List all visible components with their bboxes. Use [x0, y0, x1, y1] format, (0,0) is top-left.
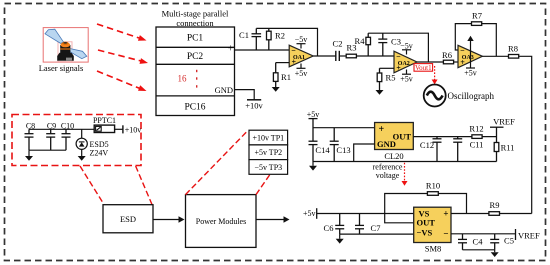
ground below ESD5 — [78, 156, 86, 161]
svg-text:−VS: −VS — [417, 228, 433, 238]
wire CL20 GND pin — [354, 144, 375, 162]
svg-text:Laser signals: Laser signals — [39, 63, 84, 73]
svg-text:R6: R6 — [442, 50, 452, 60]
red projector line to ESD right — [136, 166, 152, 205]
red projector line to TP box top — [186, 131, 248, 195]
svg-text:R4: R4 — [355, 36, 366, 46]
svg-text:C8: C8 — [26, 122, 35, 131]
node +10v terminal — [122, 125, 124, 133]
svg-text:ESD: ESD — [120, 214, 136, 224]
capacitor C4 — [458, 234, 467, 250]
svg-text:OA1: OA1 — [293, 55, 305, 61]
resistor R3 — [346, 54, 356, 58]
red dashed arrow 3 — [97, 71, 147, 91]
svg-text:C14: C14 — [315, 145, 330, 155]
wire R9 to right rail — [500, 213, 532, 215]
resistor R6 — [443, 60, 453, 64]
svg-text:+10v: +10v — [245, 101, 263, 111]
OA3 +5v supply — [466, 67, 475, 69]
svg-text:GND: GND — [377, 139, 396, 149]
OA3 ground arrow up — [467, 36, 473, 68]
wire OA2 feedback — [368, 33, 428, 62]
svg-text:+: + — [228, 44, 234, 55]
svg-text:C4: C4 — [473, 236, 484, 246]
wire ESD input rail — [29, 128, 94, 130]
op-amp OA3 — [458, 45, 482, 67]
svg-text:Z24V: Z24V — [90, 148, 109, 157]
svg-text:Power Modules: Power Modules — [196, 217, 246, 226]
capacitor C8 — [25, 129, 34, 150]
svg-text:PC1: PC1 — [187, 34, 204, 44]
ground below R1 — [272, 87, 280, 92]
wire PPTC1 to +10v — [115, 128, 123, 130]
svg-text:R9: R9 — [490, 200, 500, 210]
svg-text:−5v: −5v — [295, 35, 308, 44]
wire PC2 to OA1 — [235, 49, 290, 51]
fuse PPTC1 — [94, 125, 114, 132]
TVS diode ESD5 — [76, 129, 87, 156]
svg-text:SM8: SM8 — [425, 244, 442, 254]
svg-text:−5v TP3: −5v TP3 — [254, 163, 282, 172]
svg-text:GND: GND — [215, 85, 233, 95]
+5v supply (SM8 rail) — [317, 208, 414, 219]
svg-text:C1: C1 — [239, 30, 249, 40]
svg-text:+5v: +5v — [295, 69, 308, 78]
OA2 -5v supply — [402, 50, 411, 55]
wire R8 down right side to R9 — [519, 56, 532, 213]
wire SM8 minus pin to VREF — [451, 233, 516, 235]
wire R3 to OA2 — [356, 55, 394, 57]
svg-text:Vout1: Vout1 — [415, 64, 432, 72]
ground below R5 — [376, 90, 384, 95]
OA1 -5v supply — [297, 44, 306, 49]
arrow ESD to Power Modules — [153, 216, 185, 222]
ground below C5 — [491, 250, 499, 257]
svg-text:R8: R8 — [508, 44, 518, 54]
svg-text:Oscillograph: Oscillograph — [448, 91, 495, 101]
resistor R11 — [494, 143, 499, 162]
svg-text:R10: R10 — [426, 181, 440, 191]
svg-text:+: + — [379, 124, 385, 135]
wire GND to +10v — [235, 90, 255, 100]
svg-text:C5: C5 — [504, 235, 514, 245]
ground below C8 — [25, 150, 33, 161]
resistor R4 — [366, 33, 371, 56]
svg-text:R1: R1 — [281, 72, 291, 82]
capacitor C14 — [309, 141, 318, 161]
svg-text:−: − — [460, 46, 465, 55]
svg-text:C13: C13 — [336, 145, 350, 155]
svg-text:C6: C6 — [324, 223, 334, 233]
wire CL20 OUT — [413, 136, 496, 138]
red dashed arrow 2 — [98, 50, 148, 64]
ground arrow (CL20 rail) — [309, 162, 317, 171]
capacitor C3 — [378, 33, 387, 56]
svg-text:voltage: voltage — [376, 171, 400, 180]
test point box TP2 — [249, 145, 288, 160]
svg-text:CL20: CL20 — [384, 151, 403, 161]
+10v supply bar — [247, 99, 261, 101]
laser signals icon — [43, 28, 88, 63]
ESD detail red dashed box — [12, 115, 141, 166]
wire R6 to OA3 — [454, 61, 458, 63]
resistor R9 — [489, 212, 500, 216]
svg-text:+5v: +5v — [400, 75, 413, 84]
block Power Modules — [186, 195, 257, 248]
svg-text:C10: C10 — [61, 122, 74, 131]
wire OA1 output — [313, 55, 336, 57]
capacitor C12 — [433, 137, 442, 162]
svg-text:−: − — [291, 46, 296, 55]
svg-text:R7: R7 — [472, 11, 482, 21]
svg-text:C9: C9 — [47, 122, 56, 131]
svg-text:VREF: VREF — [493, 117, 515, 127]
svg-text:VREF: VREF — [518, 230, 540, 240]
node VREF (bottom) — [515, 229, 517, 240]
wire OA3 output — [482, 55, 508, 57]
test point box TP3 — [249, 160, 288, 175]
capacitor C7 — [355, 214, 364, 235]
svg-text:R12: R12 — [469, 124, 483, 134]
wire OA2 plus input — [380, 67, 395, 69]
red projector line to ESD left — [80, 166, 104, 205]
svg-text:OUT: OUT — [417, 218, 436, 228]
red dotted arrow (reference voltage) — [402, 163, 408, 186]
svg-text:OA2: OA2 — [398, 61, 410, 67]
svg-text:C12: C12 — [420, 140, 434, 150]
wire SM8 plus pin to R9 — [451, 213, 489, 215]
capacitor C5 — [490, 234, 499, 250]
wire R10 feedback loop — [385, 194, 467, 223]
svg-text:−5v: −5v — [400, 41, 413, 50]
svg-text:+: + — [443, 209, 448, 219]
svg-text:+5v TP2: +5v TP2 — [254, 148, 282, 157]
arrow Power Modules output — [256, 216, 290, 222]
wire OA2 output to R6 — [417, 61, 443, 63]
op-amp OA2 — [394, 51, 417, 73]
svg-text:C7: C7 — [371, 223, 381, 233]
resistor R1 — [273, 63, 278, 87]
svg-text:R2: R2 — [275, 31, 285, 41]
OA1 +5v supply — [297, 64, 306, 69]
svg-text:C2: C2 — [333, 39, 343, 49]
svg-text:PPTC1: PPTC1 — [93, 116, 116, 125]
svg-text:connection: connection — [176, 18, 214, 28]
oscillograph — [424, 85, 446, 107]
regulator SM8 — [414, 207, 451, 242]
wire OA1 feedback — [256, 28, 317, 56]
svg-text:C11: C11 — [470, 140, 484, 150]
capacitor C11 — [453, 137, 462, 162]
red dotted arrow to oscillograph — [432, 66, 438, 84]
wire C4/C5 bottoms — [463, 249, 495, 251]
capacitor C13 — [330, 128, 339, 162]
ground below C6 — [336, 234, 344, 244]
wire OA3 feedback left — [455, 24, 496, 57]
wire C2 to R3 — [339, 55, 346, 57]
resistor R5 — [377, 68, 382, 90]
capacitor C9 — [46, 129, 55, 150]
svg-text:+10v: +10v — [125, 125, 142, 134]
resistor R7 — [472, 22, 482, 26]
svg-text:+5v: +5v — [464, 69, 477, 78]
resistor R10 — [427, 192, 438, 196]
red projector line to TP box bottom — [256, 174, 270, 194]
svg-text:+5v: +5v — [303, 209, 316, 218]
svg-text:PC16: PC16 — [184, 103, 205, 113]
wire C6/C7 to -VS pin — [340, 233, 414, 235]
ground rail (CL20) — [313, 161, 497, 163]
+5v supply (CL20 rail) — [309, 119, 318, 142]
capacitor C2 — [336, 51, 340, 61]
wire C8-C10 bottoms — [29, 149, 66, 151]
svg-text:Multi-stage parallel: Multi-stage parallel — [162, 9, 229, 19]
wire OA1 plus input — [276, 62, 290, 64]
capacitor C6 — [335, 214, 344, 235]
regulator CL20 — [375, 123, 414, 150]
svg-text:+10v TP1: +10v TP1 — [252, 134, 284, 143]
multi-stage parallel connection block — [156, 27, 235, 116]
svg-text:−: − — [443, 229, 448, 239]
svg-text:−: − — [396, 52, 401, 61]
wire +5v to CL20 plus pin — [313, 127, 375, 129]
capacitor C10 — [62, 129, 71, 150]
svg-text:16: 16 — [178, 74, 188, 84]
capacitor C1 — [252, 28, 262, 50]
resistor R2 — [267, 28, 272, 50]
op-amp OA1 — [289, 45, 313, 67]
svg-text:OA3: OA3 — [462, 55, 474, 61]
red dashed arrow 1 — [97, 24, 147, 41]
node Vout1 — [414, 64, 433, 72]
svg-text:R5: R5 — [386, 73, 396, 83]
test point box TP1 — [249, 130, 288, 145]
OA2 +5v supply — [402, 70, 411, 75]
svg-text:R11: R11 — [501, 143, 515, 153]
block ESD — [103, 205, 153, 233]
node VREF (top) — [490, 127, 504, 142]
resistor R12 — [472, 135, 482, 139]
resistor R8 — [509, 55, 519, 59]
svg-text:PC2: PC2 — [187, 52, 204, 62]
svg-text:+5v: +5v — [307, 110, 320, 119]
